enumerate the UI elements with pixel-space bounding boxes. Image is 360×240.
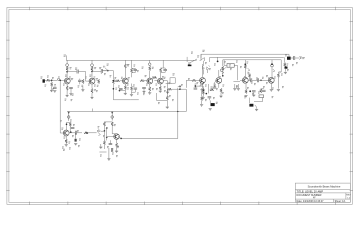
label value speck 29 [197,82,199,84]
VCC bubble stage1 [66,64,69,67]
capacitor C1 input [53,87,57,88]
resistor R16 base Q5 [153,76,157,78]
ground R23 [219,96,222,98]
wire stage4 left gnd stub [100,144,102,147]
wire bias stub x83 [82,86,84,89]
wire R19 left lead [186,79,192,81]
wire Q8 base h [233,81,240,83]
label R8 [127,64,129,66]
wire x222 stack bottom [222,70,224,75]
resistor R7 emitter stage2 [91,89,93,93]
label value speck 9 [94,85,96,87]
output terminal arrow [299,57,301,60]
wire R25 drop [237,65,239,80]
resistor R28 [245,90,247,94]
label R10 [127,64,129,66]
wire R11 ground stub [131,91,133,94]
capacitor C13 out [257,78,258,82]
wire stub 238 [237,84,239,88]
label C15 [244,96,246,98]
resistor R3 collector stage1 [66,67,68,71]
label Q3 [128,77,130,79]
wire C3b lead top [79,79,81,81]
transistor Q10 [63,130,69,136]
transistor Q12 [114,134,120,140]
VCC bubble output stage [271,64,274,67]
junction rise bus cross [177,111,178,112]
transistor Q6 [200,78,206,84]
ground R28 [244,95,247,97]
net flag [117,146,119,147]
label value speck 16 [134,65,136,67]
transistor Q5 [158,78,164,84]
wire R7 to ground [91,93,93,97]
junction stage3 collector [66,124,68,126]
label value speck 64 [112,153,114,155]
wire C26 stub [213,85,215,87]
wire Q9 base [266,79,269,81]
label value speck 44 [274,77,276,79]
label value speck 91 [268,78,270,80]
diode D1 arrow [222,71,224,74]
wire input lead [45,79,46,81]
resistor R20 Q6 node [201,96,203,100]
title block outline [295,183,350,202]
wire R9 to Q3 base [120,80,123,82]
resistor R22 [210,89,214,91]
ground R38 [115,151,118,153]
wire C11 lead [209,100,211,103]
wire VCC rail start stub up [65,55,67,60]
label value speck 18 [133,85,135,87]
wire R11 top stub [131,84,133,87]
label value speck 92 [52,89,54,91]
label R25 [229,64,231,66]
resistor R13 base Q4 [140,80,144,82]
label value speck 46 [287,64,289,66]
wire stage3 feed [68,118,70,121]
wire pot drop vertical lower [112,84,114,100]
label gnd2 speck [71,99,73,101]
wire Q10 base [60,132,63,134]
wire C25 stub [194,86,196,88]
wire R37 gnd [103,145,105,149]
wire bus left drop [92,109,94,112]
junction pot low [113,88,115,90]
label R7 [94,89,96,91]
label value speck 7 [94,77,96,79]
label C4 [99,67,101,69]
wire diode link [101,130,105,132]
junction Q2 collector [91,71,93,73]
resistor R7b shunt stage2 [98,79,100,83]
capacitor C3 coupling 1-2 [77,70,78,74]
electrolytic capacitor C17 body [285,67,288,69]
wire R15 bottom tie [161,71,166,73]
ground Q10 [65,145,68,147]
wire Q8 emitter out [248,79,250,81]
wire input shunt drop [51,80,53,82]
label value speck 10 [96,90,98,92]
wire VCC feed Q5 [162,60,164,68]
ground C1 [53,91,56,93]
wire R25 up link [223,60,225,65]
resistor R39 [202,90,204,94]
electrolytic capacitor C18 body [287,57,291,60]
ground R11 [130,94,133,96]
junction input vertical tap [59,80,61,82]
resistor R12 collector Q4 [149,66,151,70]
junction stage4 B [106,137,108,139]
wire R2 to ground [51,87,53,90]
wire R29 C16 tie [261,88,264,90]
label Q2 name [89,75,91,77]
wire R40 tap stub [167,89,169,91]
wire C23 stub [109,140,111,143]
VCC bubble Q4 [148,63,151,66]
label misc a [195,84,197,86]
label OUT [302,57,305,59]
label value speck 51 [77,130,79,132]
trimmer R25 wiper arrow [223,67,226,70]
bus tap arrow stage4 [111,112,113,114]
junction Q1 collector [66,71,68,73]
transistor Q7 [216,78,222,84]
capacitor C9 parallel Q5 [163,70,167,71]
label value speck 20 [146,84,148,86]
capacitor C4 coupling 2-3 [101,69,102,73]
bus tap arrow stage3 [68,112,70,114]
label value speck 85 [205,62,207,64]
wire bias rail right [223,59,281,61]
resistor R37 [103,141,105,145]
wire switch tick [195,59,197,61]
label value speck 61 [103,135,105,137]
wire Q12 emitter down [116,139,118,143]
wire R12 to Q4 [149,71,151,79]
label value speck 35 [224,61,226,63]
wire stage3 output rise [177,88,179,139]
relay K1 body [170,78,175,83]
wire R10 C6 tie top [132,67,136,69]
label IN [41,77,43,79]
label value speck 74 [222,92,224,94]
wire R20 top stub [201,91,203,97]
label value speck 32 [216,88,218,90]
junction C13 out [260,80,262,82]
label net above 2 [191,52,193,54]
label pair [236,85,238,87]
wire VCC stub stage1 [66,60,68,63]
wire pot drop vertical [112,71,114,80]
label value speck 78 [258,92,260,94]
wire R37 top [103,131,105,140]
wire Q8 collector [244,69,246,78]
wire R30 top [277,72,279,73]
wire R25 right lead [234,64,237,66]
ground Q9 emitter [270,90,273,92]
junction input node [51,80,53,82]
resistor R23 Q7 emitter [220,88,222,92]
wire stub 234 [234,84,236,88]
resistor P1 pot element [112,79,114,84]
switch SW1 lever A [189,60,196,64]
wire emitter bus drop [108,148,110,158]
label Q10 [61,128,63,130]
wire output stage feed [271,60,273,64]
wire Q6 collector up [202,64,204,78]
label value speck 60 [114,124,116,126]
wire feedback jog [179,86,181,89]
junction interstage [86,132,88,134]
wire Q10 out [69,132,75,134]
ground C14 [252,95,255,97]
label value speck 93 [58,77,60,79]
wire R40 out [172,88,180,90]
ground C8 [142,91,145,93]
wire Q7 collector up [218,70,220,78]
wire Q9 emitter down [270,83,272,89]
electrolytic capacitor C22 body [75,139,77,142]
resistor R30 output [277,73,279,77]
label value speck 88 [230,68,232,70]
resistor R6 collector stage2 [91,67,93,71]
wire D6 stem bottom [202,69,204,74]
wire mid link h [157,99,168,101]
capacitor C23 [109,144,113,145]
label value speck 55 [62,147,64,149]
wire emitter bus [99,151,106,153]
resistor R21 [201,88,205,90]
resistor R35 [103,122,105,126]
label value speck 47 [296,62,298,64]
label value speck 3 [45,85,47,87]
ground emitter bus [107,159,110,161]
junction R39 top [202,90,204,92]
resistor R38 Q12 emitter [116,143,118,147]
wire C10 bottom [208,98,210,100]
wire D3 stem [271,67,273,77]
wire Q1 collector node right [67,71,77,73]
label R11 [127,87,129,89]
wire stub 246 down [245,84,247,90]
wire C21 out [77,132,83,134]
VCC bubble stage2 [91,64,94,67]
wire Q7 emitter [218,83,220,88]
label R12 [152,67,154,69]
resistor R36 [111,122,113,126]
capacitor C21 [75,131,76,135]
LED D7 body [207,67,209,70]
resistor R40 feedback [168,88,172,90]
resistor R9b Q3 emitter [124,85,126,89]
wire bus drop stage4 [111,112,113,121]
junction x222 [222,75,224,77]
wire feedback middle left drop [209,57,211,62]
svg-text:REV:: REV: [346,195,351,197]
wire VCC feed mid [131,60,133,68]
pot P1 wiper arrow [115,80,116,81]
diode D4 [98,129,100,132]
wire R15 top tie [161,67,166,69]
label value speck 27 [181,84,183,86]
junction Q3 emitter tap [119,90,121,92]
label value speck 89 [244,76,246,78]
label gnd1 speck [65,99,67,101]
capacitor C2 emitter bypass stage1 [69,87,73,88]
wire Q5 base lead [154,80,157,82]
wire stage3 top tie [67,121,71,123]
label value speck 2 [52,77,54,79]
wire R27 bottom [249,78,251,81]
ground C2 [69,94,72,96]
wire C8 ground stub [143,89,145,91]
label Q4 [145,75,147,77]
resistor R26 collector Q8 [244,65,246,69]
capacitor C20 [71,128,75,129]
resistor R5 shunt [82,79,84,83]
diode D2 [248,68,250,71]
sheet border reference ticks [6,7,353,205]
wire C9 bottom stub [164,71,166,73]
capacitor C14 [252,91,256,92]
wire VCC stub stage2 [91,60,93,63]
wire D7 stem [207,70,209,73]
label SW1 [197,55,199,57]
label R3 [70,67,72,69]
label value speck 90 [254,83,256,85]
wire R4 to ground [66,90,68,95]
label value speck 6 [85,77,87,79]
label value speck 14 [127,84,129,86]
ground R39 [202,97,205,99]
label 9V [107,64,109,66]
label value speck 68 [143,93,145,95]
resistor R14 emitter Q4 [149,87,151,91]
label value speck 72 [205,99,207,101]
wire C15 to ground [255,105,257,109]
resistor R19 base Q6 [192,79,196,81]
wire Q8 collector feed [244,60,246,63]
svg-text:Date: 4/23/2003 10:43:47: Date: 4/23/2003 10:43:47 [297,200,325,203]
potentiometer P1 body [200,82,203,85]
label C11 [216,102,218,104]
label value speck 53 [72,135,74,137]
capacitor C12 [251,78,252,82]
label value speck 21 [152,77,154,79]
wire x281 link [278,71,281,73]
label value speck 77 [252,93,254,95]
wire R14 ground stub [149,91,151,92]
resistor R34 interstage [84,132,88,134]
label value speck 19 [137,93,139,95]
wire supply arrow stem [105,67,108,70]
capacitor C25 [194,88,198,89]
wire feedback middle [210,56,284,58]
ground Q4 emitter [148,93,151,95]
wire feedback outer [201,53,289,55]
label U1 [272,96,274,98]
label R12 value [142,67,144,69]
wire D6 stem top [202,61,204,66]
wire out link [279,71,281,73]
label value speck 12 [115,77,117,79]
label value speck 69 [156,88,158,90]
label value speck 4 [63,84,65,86]
wire Q2 emitter down [91,84,93,89]
wire R36 to Q12 [112,133,116,135]
wire C18 out [291,57,294,59]
transistor Q3 [122,78,128,84]
switch SW1 lever B [200,58,205,61]
label value speck 80 [272,88,274,90]
resistor R24 [222,66,224,70]
wire mid link [156,93,158,100]
label value speck 73 [213,97,215,99]
wire Q4 base lead [144,80,147,82]
label net above [202,50,204,52]
label value speck 31 [211,87,213,89]
wire C19 out [295,57,299,59]
label value speck 17 [137,70,139,72]
capacitor C6 parallel [133,69,137,70]
label value speck 86 [209,68,211,70]
junction pot wiper [113,80,115,82]
label R38 value [111,148,113,150]
label value speck 56 [69,142,71,144]
label value speck 84 [300,57,302,59]
ground R30 [277,89,280,91]
label net K1 [173,73,175,75]
label misc b [214,84,216,86]
wire bus drop stage3 [68,112,70,121]
capacitor C3b shunt [78,80,82,81]
label R7b [97,85,99,87]
resistor R1 series input [46,79,50,81]
junction Q12 out [120,138,122,140]
diode D5 [98,133,100,136]
wire lever B to node [204,58,206,61]
diode D6 [202,66,204,69]
label Q7 [214,85,216,87]
wire R39 top link [202,86,204,90]
wire C12 to C13 [252,79,258,81]
ground R40 tap [166,92,169,94]
IC U1 body [259,95,264,98]
resistor R17 emitter Q5 [159,86,161,90]
transistor Q8 [242,77,248,83]
label C3 [75,68,77,70]
label value speck 67 [152,88,154,90]
junction ball switch area [217,61,219,63]
wire stage4 col down [106,137,108,140]
wire U1 drop [254,98,263,102]
wire cluster v1 [208,84,210,93]
label value speck 66 [100,155,102,157]
transistor Q1 [64,78,70,84]
ground Q3 emitter [124,93,127,95]
label value speck 36 [236,61,238,63]
label value speck 11 [104,73,106,75]
input jack J1 [43,79,45,82]
wire out shunt x101 [100,72,102,74]
wire C13 out [259,79,266,81]
label value speck 75 [236,86,238,88]
sheet border inner [9,10,350,203]
ground C15 [255,109,258,111]
wire Q8 base [240,79,242,81]
wire Q5 emitter [159,83,161,86]
